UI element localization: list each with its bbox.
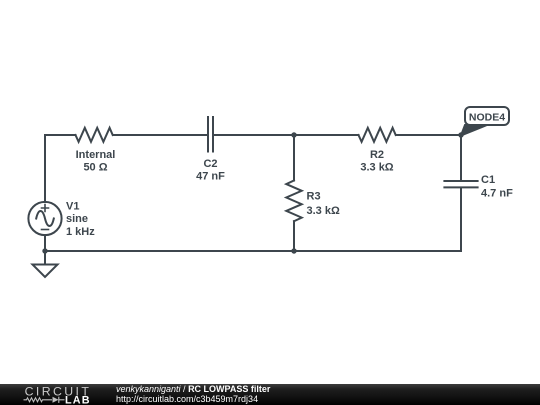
svg-text:LAB: LAB (65, 394, 91, 405)
svg-text:1 kHz: 1 kHz (66, 226, 95, 238)
svg-text:4.7 nF: 4.7 nF (481, 187, 513, 199)
svg-text:NODE4: NODE4 (469, 112, 505, 124)
svg-text:50 Ω: 50 Ω (83, 162, 107, 174)
svg-text:V1: V1 (66, 201, 79, 213)
svg-text:sine: sine (66, 213, 88, 225)
svg-text:C2: C2 (203, 158, 217, 170)
svg-text:R3: R3 (307, 191, 321, 203)
svg-text:3.3 kΩ: 3.3 kΩ (360, 162, 393, 174)
svg-text:3.3 kΩ: 3.3 kΩ (307, 205, 340, 217)
svg-text:R2: R2 (370, 149, 384, 161)
svg-text:Internal: Internal (76, 149, 116, 161)
svg-text:C1: C1 (481, 174, 495, 186)
svg-text:47 nF: 47 nF (196, 171, 225, 183)
